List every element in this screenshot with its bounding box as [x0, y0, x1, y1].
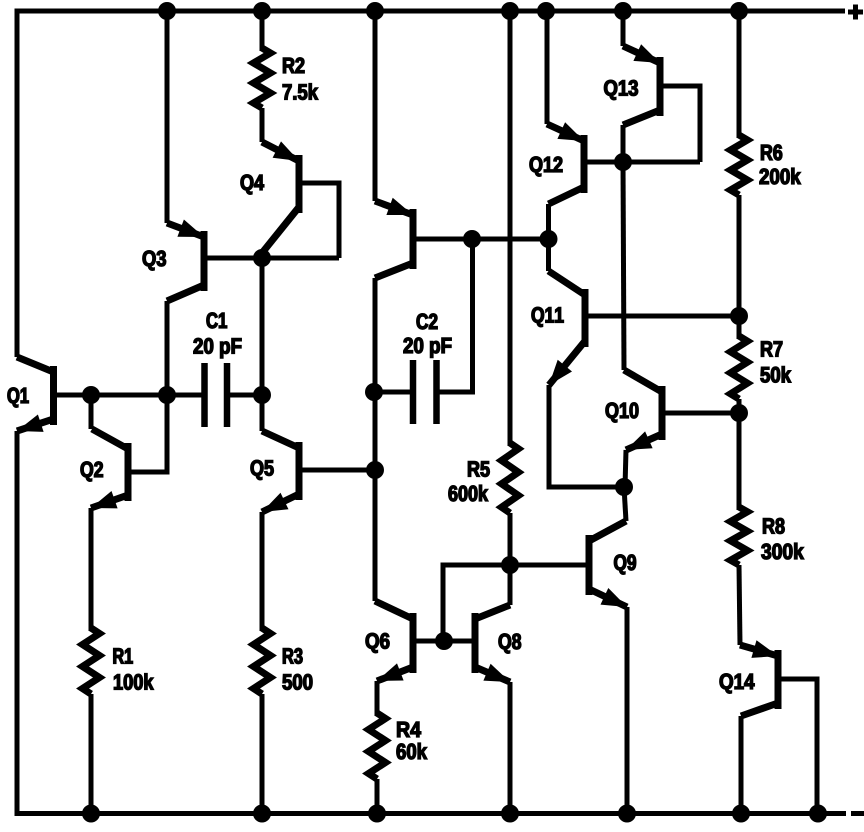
junction node top rail / Q13 column	[614, 2, 632, 20]
wire Q11 base row	[585, 314, 739, 319]
junction node C1 / Q4-Q5 column	[253, 386, 271, 404]
label R1	[114, 648, 124, 663]
label R2	[283, 58, 294, 73]
label Q4	[241, 175, 254, 195]
label Q8	[499, 634, 511, 654]
wire node down to Q10 collector	[623, 162, 624, 370]
wire Q4 collector to Q5 collector	[260, 253, 265, 431]
label Q5	[251, 460, 264, 480]
junction node top rail / Q12 column	[537, 2, 555, 20]
label Q13	[604, 80, 617, 100]
junction node C2 / Q7 collector	[365, 383, 383, 401]
label C1 value	[194, 338, 203, 353]
transistor Q11	[549, 271, 586, 385]
wire Q9 emitter to bottom rail	[625, 607, 630, 813]
wire Q3 collector down	[165, 301, 170, 395]
transistor Q3	[167, 220, 204, 302]
top supply rail	[15, 9, 846, 14]
label Q2	[81, 462, 93, 482]
label R4 value	[397, 744, 406, 760]
capacitor C1 20 pF	[205, 363, 228, 427]
wire Q14 collector to bottom rail	[739, 716, 744, 813]
wire R3 to bottom rail	[260, 694, 265, 813]
junction node top rail / R5 column	[501, 2, 519, 20]
wire Q4 base loop	[302, 183, 339, 258]
wire base tie up to Q9 base	[443, 565, 589, 641]
transistor Q2	[91, 429, 128, 508]
label R5	[468, 461, 479, 476]
junction node bottom rail / R3	[253, 805, 271, 823]
label Q10	[606, 403, 618, 423]
resistor R7 50k	[731, 336, 748, 399]
label Q14	[720, 674, 733, 694]
wire Q10 base row	[662, 411, 739, 416]
wire Q6 emitter to R4	[375, 681, 380, 716]
junction node Q10 base / R7-R8	[730, 404, 748, 422]
wire to Q2 base	[131, 395, 167, 472]
junction node Q7 base / C2	[463, 230, 481, 248]
wire node to Q11 collector	[546, 239, 551, 271]
label Q11	[532, 307, 544, 327]
junction node bottom rail / Q14 base	[809, 805, 827, 823]
label Q3	[143, 251, 156, 271]
left edge wire (Q1 emitter to bottom rail)	[15, 431, 20, 816]
wire Q5 emitter to R3	[260, 512, 265, 631]
label C2 value	[404, 338, 413, 353]
wire Q8 emitter to bottom rail	[508, 682, 513, 813]
label R5 value	[449, 486, 458, 502]
wire C2 right riser	[437, 239, 473, 392]
label R3	[283, 648, 293, 663]
wire R7 to node	[737, 399, 742, 413]
transistor Q6	[375, 601, 413, 681]
transistor Q7 (unlabeled PNP near C2)	[375, 198, 413, 278]
transistor Q10	[624, 370, 662, 450]
junction node Q10 emitter / Q11 emitter / Q9 collector	[615, 478, 633, 496]
junction node Q12 collector / Q11 collector	[540, 230, 558, 248]
wire R1 to bottom rail	[89, 694, 94, 813]
wire R5 to node	[508, 513, 513, 565]
minus terminal label	[851, 811, 864, 816]
label C2	[417, 314, 428, 330]
label R6	[761, 145, 772, 160]
label Q1	[8, 388, 19, 408]
label R8	[763, 518, 774, 533]
resistor R4 60k	[369, 713, 386, 779]
wire top rail to Q7 emitter	[373, 9, 378, 201]
junction node Q3 base / Q4 collector	[253, 249, 271, 267]
transistor Q5	[262, 431, 299, 512]
label R6 value	[760, 169, 769, 184]
label R4	[397, 722, 409, 737]
wire Q12 collector down	[546, 204, 551, 239]
resistor R2 7.5k	[254, 48, 271, 108]
junction node Q12 base / Q13 collector	[614, 153, 632, 171]
wire Q9 base row	[510, 563, 589, 568]
junction node bottom rail / Q9 emitter	[618, 805, 636, 823]
wire top rail to Q3 emitter	[165, 9, 170, 223]
transistor Q4	[262, 141, 299, 253]
wire top rail to R2	[260, 9, 265, 51]
junction node top rail / R2	[253, 2, 271, 20]
wire Q11 emitter path	[549, 385, 624, 487]
wire Q7 base row	[413, 237, 549, 242]
wire R4 to bottom rail	[375, 779, 380, 813]
wire node to R8	[737, 413, 742, 510]
left edge wire (top rail to Q1 collector)	[15, 9, 20, 358]
wire R6 to node	[737, 195, 742, 316]
wire Q7 collector down to C2 node	[373, 278, 378, 470]
label R1 value	[114, 674, 122, 689]
resistor R5 600k	[502, 443, 519, 513]
wire Q3 base / Q4 collector row	[204, 256, 339, 261]
junction node Q5 base	[366, 461, 384, 479]
transistor Q9	[589, 521, 627, 607]
resistor R8 300k	[731, 507, 748, 565]
label C1	[207, 313, 218, 329]
plus terminal label	[848, 10, 863, 15]
junction node top rail / Q7 column	[366, 2, 384, 20]
junction node bottom rail / Q14 collector	[732, 805, 750, 823]
resistor R3 500	[254, 628, 271, 694]
resistor R6 200k	[731, 135, 748, 195]
resistor R1 100k	[83, 628, 100, 694]
wire top rail to Q12 emitter	[545, 9, 550, 124]
junction node bottom rail / Q8 emitter	[501, 805, 519, 823]
wire node to Q6 collector	[373, 470, 378, 601]
wire R2 to Q4 emitter	[260, 108, 265, 142]
junction node Q6-Q8 base tie	[435, 632, 453, 650]
junction node top rail / Q3 column	[158, 2, 176, 20]
transistor Q8	[475, 605, 510, 682]
wire R8 to Q14 emitter	[739, 565, 740, 645]
label R8 value	[761, 544, 771, 560]
wire Q2 emitter to R1	[89, 508, 94, 631]
label R2 value	[283, 84, 292, 99]
wire Q1 base row	[54, 393, 206, 398]
transistor Q14	[740, 640, 778, 716]
junction node Q11 base / R6-R7	[730, 307, 748, 325]
label Q6	[366, 633, 379, 653]
label R3 value	[283, 674, 292, 689]
wire Q12 base / Q13 loop row	[584, 160, 700, 165]
label Q9	[614, 555, 626, 575]
label R7	[761, 341, 772, 356]
wire node to Q9 collector	[624, 487, 626, 521]
junction node bottom rail / R1	[82, 805, 100, 823]
bottom supply rail	[15, 811, 847, 816]
transistor Q1	[17, 357, 54, 432]
transistor Q12	[547, 122, 584, 204]
transistor Q13	[623, 44, 660, 125]
label Q12	[530, 157, 542, 177]
wire Q14 base to bottom rail	[781, 679, 817, 813]
wire Q2 collector riser	[89, 395, 94, 429]
wire top rail stub to Q13	[621, 9, 626, 46]
capacitor C2 20 pF	[413, 360, 437, 424]
wire Q5 base row	[299, 468, 375, 473]
wire C2 left connection	[374, 390, 413, 395]
junction node R5 / Q8 collector / Q9 base	[501, 556, 519, 574]
junction node Q1 base / Q2 collector	[82, 386, 100, 404]
junction node Q1 base / Q3 collector	[158, 386, 176, 404]
junction node top rail / R6 column	[730, 2, 748, 20]
label R7 value	[761, 367, 770, 382]
wire Q13 base loop	[663, 86, 700, 162]
junction node bottom rail / R4	[368, 805, 386, 823]
wire Q10 emitter down	[625, 450, 626, 487]
wire node to R7	[737, 316, 742, 339]
wire top rail to R5	[508, 9, 513, 446]
wire Q6-Q8 base tie	[413, 639, 475, 644]
wire node to Q8 collector	[508, 565, 513, 605]
wire C1 right plate to node	[227, 393, 262, 398]
wire top rail to R6	[737, 9, 742, 138]
wire Q13 collector down	[621, 125, 626, 162]
